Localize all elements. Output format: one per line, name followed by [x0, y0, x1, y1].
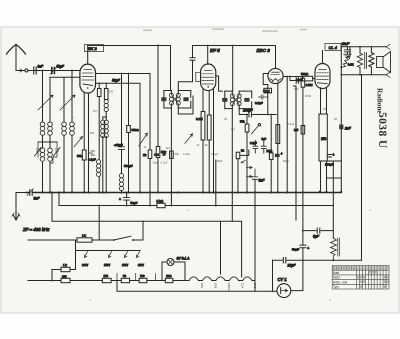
svg-text:200: 200: [62, 274, 67, 278]
tube EBC3: [268, 68, 283, 83]
wire rail C: [341, 46, 386, 48]
resistor 150 chain: [102, 274, 121, 282]
wire line B to heater junction: [241, 221, 243, 277]
svg-text:EF 5: EF 5: [210, 48, 220, 53]
svg-text:50: 50: [334, 117, 337, 121]
capacitor 25uF psu: [283, 258, 296, 268]
tube EK2 label box: [85, 45, 104, 52]
svg-text:0.5M: 0.5M: [306, 83, 313, 87]
wire rail B drop to IFT2: [232, 46, 234, 92]
transformer output primary winding: [357, 46, 362, 75]
resistor 50k EK2 cathode: [77, 150, 86, 193]
resistor CL4 cathode big box: [319, 88, 327, 192]
scan speckles: [72, 29, 370, 301]
capacitor 50pF: [50, 64, 65, 74]
coil osc feedback small: [104, 99, 108, 103]
svg-text:O: O: [375, 271, 378, 275]
wire tap line 1k: [52, 251, 76, 281]
capacitor blob 2: [162, 153, 165, 155]
svg-text:10nF: 10nF: [342, 42, 351, 46]
capacitor 1nF block: [339, 125, 351, 192]
svg-text:5µF: 5µF: [313, 235, 320, 239]
table header fill: [332, 266, 388, 270]
wire EK2 screen line: [96, 82, 141, 84]
svg-text:0.1µF: 0.1µF: [211, 152, 218, 156]
capacitor 5nF bus left: [27, 189, 40, 201]
wire EK2 top lead: [87, 46, 89, 65]
svg-text:50µF: 50µF: [292, 248, 299, 252]
label tube heaters: [200, 283, 257, 291]
wire voltage selector bar: [76, 240, 141, 251]
svg-text:220V: 220V: [82, 263, 88, 267]
variable arrow padder: [74, 137, 83, 148]
arrow speaker plug top: [386, 44, 390, 49]
wire CL4 top lead: [322, 51, 324, 64]
resistor box R osc anode: [104, 82, 108, 99]
wire EK2 plate line: [96, 73, 151, 75]
wire EF5 suppressor: [213, 88, 215, 193]
coil filament choke: [119, 174, 123, 178]
selector contact arrow 3: [125, 251, 129, 258]
svg-text:50µF: 50µF: [130, 201, 137, 205]
capacitor 0.1uF AVC: [255, 95, 268, 105]
resistor EF5 cathode box1: [196, 90, 205, 193]
coil L1 antenna pair: [40, 122, 52, 135]
svg-text:6V 0.1 A: 6V 0.1 A: [177, 257, 191, 261]
selector contact arrow 2: [109, 251, 113, 258]
svg-text:0.7M: 0.7M: [263, 89, 270, 93]
wire EBC3 diode load to bus: [270, 115, 272, 154]
ground bus: [26, 192, 341, 194]
coil oscillator pair: [101, 117, 109, 193]
resistor 0.7M grid leak: [263, 74, 271, 116]
resistor 0.3M variable zigzag: [340, 47, 353, 68]
electrolytic 50uF psu: [292, 245, 309, 251]
resistor tall box diode column: [276, 125, 280, 144]
trimmer capacitor right: [50, 142, 60, 163]
svg-text:EK2: EK2: [200, 283, 204, 289]
wire EBC3 cathode lead: [277, 83, 279, 193]
wire grid return column: [294, 86, 297, 220]
variable capacitor arrow 2: [60, 95, 75, 110]
wire return line bottom: [117, 281, 277, 292]
node antenna coil tap: [42, 70, 44, 72]
selector contact arrow 4: [137, 251, 141, 258]
svg-text:5nF: 5nF: [34, 197, 41, 201]
node psu dots: [302, 230, 334, 262]
svg-text:EBC3: EBC3: [227, 283, 231, 291]
svg-text:5nF: 5nF: [259, 179, 266, 183]
svg-text:+: +: [281, 152, 283, 156]
svg-text:1nF: 1nF: [345, 127, 352, 131]
tube EK2: [80, 64, 96, 93]
wire line A minus rail: [59, 193, 333, 206]
rectifier tube CY1: [277, 284, 291, 298]
svg-text:110V: 110V: [138, 263, 144, 267]
variable tap arrow IF: [185, 134, 193, 144]
transformer output secondary winding: [369, 47, 374, 75]
wire EBC3 plate line: [283, 76, 303, 193]
capacitor coupling to IFT1: [178, 46, 195, 91]
wire bus to ground: [16, 193, 26, 212]
capacitor 10nF to ground: [342, 42, 352, 57]
svg-text:EBC 3: EBC 3: [257, 48, 271, 53]
wire CY1 right: [291, 260, 303, 290]
selector contact arrow 1: [85, 251, 89, 258]
wire psu horizontal: [273, 259, 362, 261]
svg-text:0.1µF: 0.1µF: [250, 141, 257, 145]
coil L2 antenna pair: [62, 122, 75, 135]
ground arrow: [12, 212, 20, 221]
svg-text:0.1µF: 0.1µF: [161, 161, 168, 165]
svg-text:50µF: 50µF: [283, 159, 290, 163]
svg-text:40: 40: [224, 117, 227, 121]
svg-text:25µF: 25µF: [217, 159, 224, 163]
svg-text:+: +: [307, 247, 309, 251]
resistor 0.3M plate load: [294, 77, 313, 206]
label voltage taps: [82, 263, 144, 267]
svg-text:+25µF: +25µF: [114, 143, 123, 147]
switch contact arrows tone: [247, 166, 253, 178]
wire CL4 screen column: [340, 46, 342, 125]
antenna: [7, 45, 26, 71]
capacitor 5uF smoothing: [303, 228, 333, 239]
svg-text:250: 250: [321, 137, 327, 141]
wire tap posts: [117, 274, 155, 281]
svg-text:1k2: 1k2: [166, 146, 171, 150]
svg-text:ZF = 433 kHz: ZF = 433 kHz: [22, 227, 50, 232]
electrolytic 25uF osc: [114, 73, 133, 174]
transformer output core: [365, 53, 367, 69]
variable capacitor arrow 1: [38, 95, 53, 110]
resistor box diode load: [267, 149, 274, 193]
wire speaker return long vertical: [361, 75, 363, 260]
wire EF5 top lead: [207, 46, 209, 65]
wire speaker bottom line: [340, 72, 390, 77]
wire stub secondary circuit: [327, 160, 342, 162]
svg-text:0.1µF: 0.1µF: [255, 101, 263, 105]
wire stub cathode to screen column: [327, 177, 342, 179]
resistor 50 chain: [121, 274, 139, 282]
svg-text:125V: 125V: [122, 263, 128, 267]
svg-text:50kΩ: 50kΩ: [301, 72, 309, 76]
coil L3 oscillator pair: [40, 148, 52, 193]
wire EBC3 top lead: [275, 46, 277, 69]
svg-text:150: 150: [104, 274, 109, 278]
resistor box R osc grid: [97, 82, 101, 159]
tube CL4 label box: [325, 44, 341, 51]
resistor 50k osc: [127, 73, 140, 193]
svg-text:25µF: 25µF: [287, 264, 297, 268]
coil oscillator cathode: [97, 160, 101, 193]
wire heater end down: [254, 281, 256, 292]
svg-text:35.0: 35.0: [166, 274, 172, 278]
wire mains switch line: [28, 239, 77, 241]
wire heater chain main: [28, 280, 102, 282]
wire IFT2 left bottom to bus: [231, 109, 233, 222]
svg-text:CL 4: CL 4: [329, 45, 338, 50]
svg-text:NM2: NM2: [267, 149, 273, 153]
svg-text:0.1µF: 0.1µF: [288, 122, 295, 126]
wire EK2 cathode leads: [84, 93, 88, 193]
resistor 750 chain: [139, 274, 165, 282]
resistor box detector column: [170, 151, 174, 159]
trimmer capacitor left: [35, 142, 42, 157]
svg-text:5038 U: 5038 U: [376, 112, 388, 149]
svg-text:1k: 1k: [143, 153, 147, 157]
wire line B: [52, 193, 241, 222]
electrolytic cathode blob: [275, 154, 280, 157]
svg-text:0.3M: 0.3M: [348, 63, 354, 67]
resistor 200 chain: [61, 274, 70, 282]
svg-text:0.5M: 0.5M: [305, 94, 312, 98]
wire riser switch to line B: [142, 221, 144, 240]
resistor 35 chain: [165, 274, 189, 282]
resistor 6k line A: [157, 199, 166, 207]
capacitor 100pF detector: [243, 109, 276, 118]
table marks: [357, 271, 390, 289]
svg-text:25µF: 25µF: [153, 161, 160, 165]
svg-text:Batt: Batt: [333, 271, 339, 275]
wire EK2 screen to ground column: [139, 83, 141, 192]
wire tuning columns: [43, 71, 81, 123]
svg-text:50pF: 50pF: [112, 79, 121, 83]
electrolytic 100uF cathode: [325, 153, 335, 167]
resistor EF5 screen box2: [207, 91, 211, 193]
wire rail A EK2: [88, 45, 171, 47]
svg-text:0.2: 0.2: [231, 127, 235, 131]
IF transformer 2: [222, 91, 252, 109]
antenna terminal: [20, 69, 23, 72]
electrolytic 50uF bias: [119, 193, 137, 206]
svg-text:150V: 150V: [104, 263, 110, 267]
capacitor coupling to CL4: [289, 76, 302, 84]
wire below L1 L2: [38, 136, 72, 193]
svg-text:+: +: [119, 198, 121, 202]
resistor box tone column: [236, 149, 249, 193]
svg-text:Typ: Typ: [333, 285, 339, 289]
svg-text:20: 20: [323, 107, 326, 111]
svg-text:EK 2: EK 2: [88, 46, 97, 51]
svg-text:100µF: 100µF: [325, 163, 334, 167]
svg-text:50k: 50k: [77, 154, 82, 158]
label cluster misc values: [90, 87, 337, 165]
lamp 6V 0.1A: [162, 257, 190, 281]
wire EF5 plate to IFT2: [216, 76, 223, 91]
capacitor blob 1: [154, 153, 159, 156]
svg-text:300: 300: [109, 90, 114, 94]
svg-text:5nF: 5nF: [294, 87, 299, 91]
svg-text:Radione: Radione: [376, 88, 384, 114]
svg-text:0.2M: 0.2M: [196, 117, 203, 121]
svg-text:50k: 50k: [240, 120, 245, 124]
svg-text:Netz: Netz: [333, 276, 340, 280]
wire rail A drop to IFT1: [170, 46, 172, 91]
svg-text:50k: 50k: [161, 150, 166, 154]
svg-text:CY 1: CY 1: [278, 277, 287, 282]
choke filter: [331, 206, 340, 261]
resistor 1k column: [143, 74, 152, 206]
svg-text:+: +: [333, 153, 335, 157]
wire choke top from bus column: [332, 161, 334, 206]
svg-text:50k: 50k: [175, 152, 180, 156]
svg-text:EF5: EF5: [214, 283, 218, 289]
potentiometer volume: [240, 114, 261, 193]
svg-text:50kΩ: 50kΩ: [132, 128, 140, 132]
svg-text:50k: 50k: [90, 131, 95, 135]
node rail A dot: [157, 45, 159, 47]
node bus dots: [41, 191, 342, 194]
node line A dots: [126, 205, 304, 207]
wire antenna input: [16, 70, 80, 72]
speaker: [377, 52, 391, 73]
switch power: [92, 236, 143, 241]
svg-text:50: 50: [123, 274, 126, 278]
svg-text:0.1µF: 0.1µF: [183, 152, 190, 156]
svg-text:0.1µF: 0.1µF: [88, 158, 96, 162]
wire column to line A: [215, 160, 217, 206]
tube EF5: [196, 64, 216, 91]
svg-text:5nF: 5nF: [262, 137, 267, 141]
IF transformer 1: [161, 91, 191, 109]
tube CL4: [315, 64, 330, 89]
wire rail B: [193, 45, 276, 47]
table tube chart: [332, 266, 389, 290]
wire psu column: [302, 206, 304, 261]
svg-text:CL4: CL4: [241, 283, 245, 289]
svg-text:100pF: 100pF: [243, 109, 254, 113]
wire IFT1 bottom leads: [171, 96, 193, 206]
svg-text:Röhr. mA: Röhr. mA: [333, 280, 348, 284]
resistor box screen feed: [156, 45, 166, 193]
capacitor 0.1uF EK2 cathode: [88, 151, 96, 162]
svg-text:6 kΩ: 6 kΩ: [157, 199, 164, 203]
wire CY1 left up: [272, 260, 274, 291]
resistor 50k CL4 grid: [301, 72, 315, 81]
svg-text:750: 750: [140, 274, 145, 278]
capacitor 5nF tone: [252, 169, 265, 291]
variable tap arrow AVC: [139, 133, 148, 146]
heater filament arcs: [189, 277, 255, 281]
capacitor pair detector filter: [250, 137, 266, 153]
svg-text:1 k: 1 k: [82, 234, 86, 238]
capacitor 3nF: [34, 64, 44, 74]
wire IFT2 right bottom detector line: [239, 109, 248, 115]
resistor 1k mains: [77, 234, 92, 243]
svg-text:50pF: 50pF: [57, 64, 65, 68]
